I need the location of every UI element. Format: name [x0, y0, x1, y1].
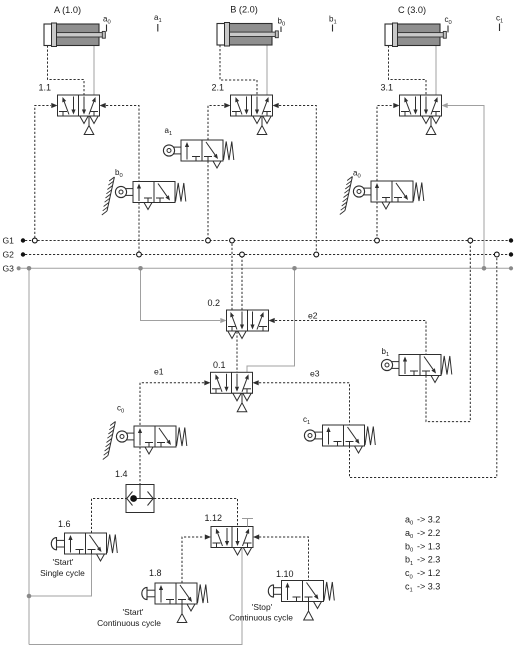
wire: bus G2 to valve 2.1 right pilot — [279, 106, 316, 253]
svg-text:A (1.0): A (1.0) — [54, 5, 81, 15]
pressure bus G1 line — [25, 240, 32, 242]
roller limit valve a1 (3/2-way, unactuated) — [163, 126, 233, 168]
roller limit valve c0 (3/2-way, actuated by cam) — [103, 404, 187, 460]
plug on port 2 of valve 1.12 — [247, 519, 249, 527]
5/2-way double pilot valve 3.1 — [381, 83, 448, 135]
svg-text:'Start': 'Start' — [123, 607, 144, 617]
wire: limit valve a1 output to valve 2.1 left pilot — [208, 106, 224, 141]
svg-text:1.10: 1.10 — [276, 569, 294, 579]
svg-text:e3: e3 — [310, 369, 320, 379]
svg-text:1.6: 1.6 — [58, 519, 71, 529]
wire: bus G2 to limit valve c1 supply port — [350, 257, 497, 478]
svg-text:1.4: 1.4 — [115, 469, 128, 479]
wire: cylinder A rod port to valve 1.1 port 2 — [93, 46, 95, 96]
svg-text:G2: G2 — [3, 250, 15, 260]
right pilot arrow of valve 3.1 (gray) — [442, 103, 448, 108]
svg-text:G1: G1 — [3, 236, 15, 246]
left pilot arrow of valve 1.12 — [205, 534, 211, 539]
wire: valve 1.12 port 4 to shuttle valve 1.4 right input — [154, 499, 238, 527]
wire: valve 0.2 port 2 to bus G2 — [241, 257, 243, 310]
roller limit valve c1 (3/2-way, unactuated) — [303, 415, 375, 453]
wire: bus G1 to limit valve a1 supply port — [207, 161, 209, 238]
svg-text:-> 1.3: -> 1.3 — [417, 541, 440, 551]
svg-text:C (3.0): C (3.0) — [398, 5, 426, 15]
push-button valve 1.6 'Start single cycle' (3/2-way) — [40, 519, 117, 578]
right pilot arrow of valve 1.12 — [253, 534, 259, 539]
junction circle G1 to valve a0 — [375, 238, 380, 243]
5/2-way cascade valve 0.2 — [208, 298, 275, 339]
pressure bus G3 line (pressurized gray) — [21, 267, 511, 269]
svg-text:e1: e1 — [154, 367, 164, 377]
wire: bus G2 to limit valve b0 supply port — [138, 203, 140, 253]
wire: cylinder B left port to valve 2.1 port 4 — [220, 45, 257, 95]
junction circle G2 to valve 2.1 right pilot — [314, 252, 319, 257]
roller limit valve b1 (3/2-way, unactuated) — [381, 347, 451, 383]
left pilot arrow of valve 1.1 — [51, 103, 57, 108]
5/2-way cascade valve 0.1 — [204, 360, 258, 412]
wire: valve 1.6 output to shuttle valve 1.4 left input — [92, 499, 127, 534]
wire e1: limit valve c0 output to valve 0.1 left pilot — [140, 383, 204, 426]
5/2-way memory valve 1.12 — [205, 513, 260, 555]
left pilot arrow of valve 2.1 — [224, 103, 230, 108]
wire: valve 0.2 supply port 1 from valve 0.1 port 4 — [236, 332, 238, 373]
roller limit valve a0 (3/2-way, actuated by cam) — [340, 169, 424, 215]
svg-text:Single cycle: Single cycle — [40, 568, 85, 578]
wire: cylinder B rod port to valve 2.1 port 2 — [266, 45, 268, 95]
junction circle G1 to valve b1 supply — [468, 238, 473, 243]
svg-text:-> 3.3: -> 3.3 — [417, 582, 440, 592]
svg-text:2.1: 2.1 — [212, 83, 225, 93]
wire: valve 0.1 port 2 to bus G3 (pressurized) — [247, 270, 295, 372]
wire: cylinder C rod port to valve 3.1 port 2 — [435, 46, 437, 96]
svg-text:1.1: 1.1 — [39, 83, 52, 93]
bus G1 label and end dots — [3, 236, 514, 246]
wire: valve 0.2 port 4 to bus G1 — [231, 243, 233, 310]
svg-text:G3: G3 — [3, 264, 15, 274]
junction dot G3 to valve 0.2 pilot — [138, 266, 143, 271]
junction circle G2 to valve b0 supply — [137, 252, 142, 257]
wire: shuttle valve 1.4 output to limit valve c0 supply port — [139, 447, 141, 485]
wire: left column to valve 1.6 supply port (pressurized) — [29, 554, 92, 596]
left pilot arrow of valve 0.2 (gray) — [220, 318, 226, 323]
wire: bus G3 left supply column (pressurized) — [28, 268, 30, 644]
junction dot G3 to valve 3.1 pilot — [482, 266, 487, 271]
svg-text:-> 1.2: -> 1.2 — [417, 568, 440, 578]
wire: bus G3 to valve 3.1 right pilot (pressurized) — [447, 106, 484, 267]
right pilot arrow of valve 0.2 — [269, 318, 275, 323]
wire: valve 1.10 output to valve 1.12 right pilot — [259, 537, 309, 581]
junction circle G2 to valve 0.2 port 2 — [240, 252, 245, 257]
svg-text:-> 3.2: -> 3.2 — [417, 515, 440, 525]
svg-text:'Stop': 'Stop' — [252, 602, 273, 612]
left pilot arrow of valve 3.1 — [393, 103, 399, 108]
cylinder C (3.0), double-acting, retracted — [385, 24, 440, 46]
legend: limit switch to pilot port mapping — [405, 515, 440, 594]
svg-text:1.8: 1.8 — [149, 568, 162, 578]
right pilot arrow of valve 1.1 — [100, 103, 106, 108]
junction circle G1 to valve a1 — [206, 238, 211, 243]
cylinder B (2.0), double-acting, retracted — [217, 24, 272, 46]
air supply source of valve 1.8 — [181, 604, 183, 613]
svg-text:-> 2.3: -> 2.3 — [417, 555, 440, 565]
wire: cylinder A left port to valve 1.1 port 4 — [48, 46, 85, 96]
svg-text:0.2: 0.2 — [208, 298, 221, 308]
junction circle G2 to valve c1 supply — [494, 252, 499, 257]
wire e3: limit valve c1 output to valve 0.1 right pilot — [259, 383, 350, 425]
left pilot arrow of valve 0.1 — [204, 380, 210, 385]
shuttle valve 1.4 (OR) — [115, 469, 154, 513]
bus G3 label and end dots — [3, 264, 514, 274]
wire: valve 1.8 output to valve 1.12 left pilot — [182, 537, 204, 583]
roller limit valve b0 (3/2-way, actuated by cam) — [102, 168, 186, 215]
svg-text:-> 2.2: -> 2.2 — [417, 528, 440, 538]
wire: limit valve b0 output to valve 1.1 right pilot — [106, 106, 139, 182]
wire: limit valve a0 output to valve 3.1 left pilot — [377, 106, 393, 182]
svg-text:Continuous cycle: Continuous cycle — [229, 613, 293, 623]
svg-text:B (2.0): B (2.0) — [230, 5, 258, 15]
svg-text:0.1: 0.1 — [213, 360, 226, 370]
wire: bus G1 to valve 1.1 left pilot — [35, 106, 51, 239]
wire: cylinder C left port to valve 3.1 port 4 — [389, 46, 427, 96]
wire: bus G1 to limit valve b1 supply port — [426, 243, 470, 422]
junction circle G1 to valve 0.2 port 4 — [230, 238, 235, 243]
5/2-way double pilot valve 2.1 — [212, 83, 279, 135]
right pilot arrow of valve 2.1 — [273, 103, 279, 108]
svg-text:3.1: 3.1 — [381, 83, 394, 93]
wire: bottom supply line to valve 1.12 supply port (pressurized) — [29, 548, 242, 645]
svg-text:Continuous cycle: Continuous cycle — [97, 618, 161, 628]
5/2-way double pilot valve 1.1 — [39, 83, 106, 135]
svg-text:'Start': 'Start' — [53, 557, 74, 567]
junction dot left column to valve 1.6 supply — [27, 594, 32, 599]
right pilot arrow of valve 0.1 — [253, 380, 259, 385]
bus G2 label and end dots — [3, 250, 514, 260]
junction dot G3 from valve 0.1 output — [292, 266, 297, 271]
cylinder A (1.0), double-acting, retracted — [44, 24, 99, 46]
svg-text:1.12: 1.12 — [205, 513, 223, 523]
svg-text:e2: e2 — [308, 311, 318, 321]
push-button valve 1.8 'Start continuous cycle' (3/2-way) — [97, 568, 208, 628]
pressure bus G2 line — [25, 254, 509, 256]
junction dot G3 left column — [27, 266, 32, 271]
wire: bus G3 to valve 0.2 left pilot (pressurized) — [141, 270, 221, 321]
wire e2: limit valve b1 output to valve 0.2 right pilot — [275, 321, 426, 355]
wire: bus G1 to limit valve a0 supply port — [376, 202, 378, 238]
push-button valve 1.10 'Stop continuous cycle' (3/2-way) — [229, 569, 334, 623]
air supply source of valve 1.10 — [308, 602, 310, 611]
junction circle G1 to valve 1.1 pilot — [32, 238, 37, 243]
